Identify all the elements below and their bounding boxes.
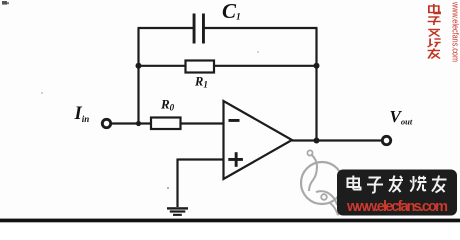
- svg-text:www.elecfans.com: www.elecfans.com: [451, 1, 460, 62]
- svg-text:www.elecfans.com: www.elecfans.com: [346, 199, 448, 215]
